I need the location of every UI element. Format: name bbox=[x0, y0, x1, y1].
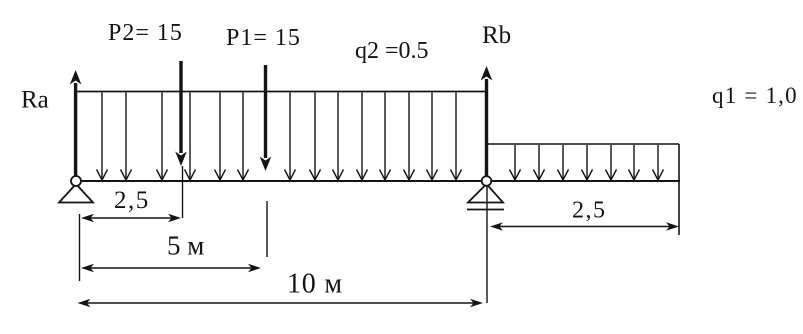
wire: P1 extension line bbox=[266, 201, 268, 257]
svg-text:2,5: 2,5 bbox=[114, 187, 150, 214]
q2 load arrow 1 bbox=[97, 93, 108, 181]
q2 load arrow 10 bbox=[357, 93, 368, 181]
dimension 2,5 (right) bbox=[490, 222, 679, 230]
wire: right end vertical edge bbox=[678, 144, 680, 235]
q1 load arrow 2 bbox=[534, 145, 545, 180]
q2 load arrow 8 bbox=[310, 93, 321, 181]
q2 load arrow 14 bbox=[451, 93, 462, 181]
dimension 2,5 (left) bbox=[81, 214, 181, 222]
svg-text:5 м: 5 м bbox=[167, 231, 204, 261]
support A (pin) bbox=[59, 176, 93, 203]
q2 load arrow 3 bbox=[157, 93, 168, 181]
svg-text:Rb: Rb bbox=[482, 22, 511, 49]
beam AB (main span) bbox=[75, 180, 680, 182]
svg-text:q1 = 1,0: q1 = 1,0 bbox=[712, 83, 798, 108]
distributed load q2 arrows bbox=[97, 93, 462, 181]
reaction Ra arrow bbox=[70, 70, 82, 181]
q2 load arrow 11 bbox=[380, 93, 391, 181]
q1 load arrow 1 bbox=[510, 145, 521, 180]
q2 load arrow 4 bbox=[185, 93, 196, 181]
q2 load arrow 5 bbox=[215, 93, 226, 181]
svg-text:P1= 15: P1= 15 bbox=[226, 25, 301, 51]
wire: left extension line below support A bbox=[79, 214, 81, 281]
q1 load arrow 6 bbox=[629, 145, 640, 180]
wire: P2 extension line down to dimension bbox=[182, 166, 184, 218]
dimension 5 m bbox=[81, 264, 261, 272]
q1 load arrow 7 bbox=[653, 145, 664, 180]
q2 load arrow 13 bbox=[427, 93, 438, 181]
svg-text:2,5: 2,5 bbox=[572, 198, 607, 224]
wire: q1 load top line bbox=[487, 143, 679, 145]
q1 load arrow 4 bbox=[582, 145, 593, 180]
wire: q2 load top line bbox=[75, 91, 487, 93]
force P1 arrow bbox=[260, 65, 272, 171]
dimension 10 m bbox=[78, 299, 484, 307]
q2 load arrow 2 bbox=[121, 93, 132, 181]
support B (roller) bbox=[467, 176, 504, 209]
svg-text:Ra: Ra bbox=[21, 87, 49, 114]
wire: extension line below support B bbox=[486, 186, 488, 303]
svg-text:q2 =0.5: q2 =0.5 bbox=[355, 38, 429, 64]
svg-text:P2= 15: P2= 15 bbox=[108, 20, 183, 46]
q2 load arrow 6 bbox=[238, 93, 249, 181]
q1 load arrow 5 bbox=[606, 145, 617, 180]
q2 load arrow 9 bbox=[333, 93, 344, 181]
reaction Rb arrow bbox=[481, 66, 493, 177]
q2 load arrow 7 bbox=[285, 93, 296, 181]
distributed load q1 arrows bbox=[510, 145, 664, 180]
force P2 arrow bbox=[175, 61, 187, 166]
q2 load arrow 12 bbox=[404, 93, 415, 181]
q1 load arrow 3 bbox=[558, 145, 569, 180]
svg-text:10 м: 10 м bbox=[287, 269, 343, 300]
